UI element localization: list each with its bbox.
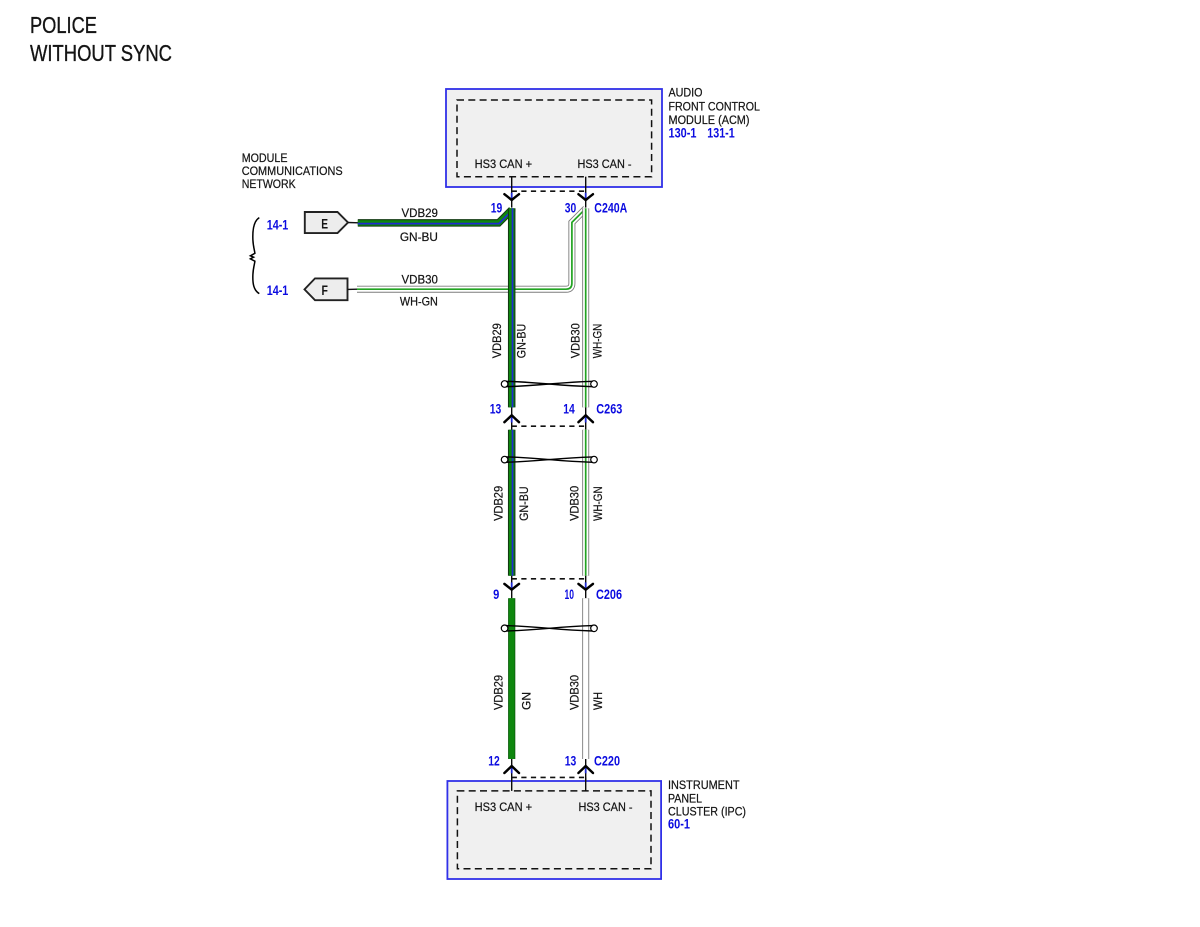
svg-text:MODULE: MODULE xyxy=(242,151,288,165)
label AUDIO FRONT CONTROL MODULE (ACM) xyxy=(669,86,760,128)
pin 9 arrow (C206) xyxy=(504,582,519,589)
wire label VDB30 (F branch) xyxy=(402,273,438,287)
pin 30 arrow (C240A) xyxy=(578,193,593,200)
pin 19 arrow (C240A) xyxy=(504,193,519,200)
connector C206 dashed link xyxy=(512,578,586,580)
wire label GN-BU vertical segment 2 xyxy=(517,486,531,521)
wire VDB29 GN-BU vertical segment C240A to C263 xyxy=(508,208,516,407)
svg-text:VDB29: VDB29 xyxy=(402,206,438,220)
in-line connector E xyxy=(305,212,348,233)
svg-text:14-1: 14-1 xyxy=(267,283,289,298)
svg-text:13: 13 xyxy=(490,402,502,417)
pin 12 arrow (C220) xyxy=(504,766,519,773)
pin 13 arrow (C263) xyxy=(504,415,519,422)
wire label GN-BU (E branch) xyxy=(400,230,438,244)
pin number 14 xyxy=(563,402,575,417)
connector label C206 xyxy=(596,587,622,602)
wire label WH-GN (F branch) xyxy=(400,295,438,309)
pin number 10 xyxy=(565,587,575,602)
svg-text:14: 14 xyxy=(563,402,575,417)
pin number 30 xyxy=(565,200,577,215)
wire VDB30 WH-GN vertical segment C240A to C263 xyxy=(582,208,589,407)
svg-text:14-1: 14-1 xyxy=(267,218,289,233)
connector label C220 xyxy=(594,753,620,768)
svg-text:HS3 CAN +: HS3 CAN + xyxy=(475,157,532,171)
IPC pin label HS3 CAN - xyxy=(579,800,633,814)
C220 stem pin 12 xyxy=(511,759,513,791)
IPC pin label HS3 CAN + xyxy=(475,800,532,814)
module box U1 AUDIO FRONT CONTROL MODULE (ACM) xyxy=(446,89,662,187)
wire link from F xyxy=(348,288,358,290)
ACM pin stem 30 xyxy=(585,177,587,208)
C263 stem pin 13 xyxy=(511,407,513,429)
svg-text:WITHOUT SYNC: WITHOUT SYNC xyxy=(30,40,172,66)
svg-text:C220: C220 xyxy=(594,753,620,768)
label INSTRUMENT PANEL CLUSTER (IPC) xyxy=(668,778,746,819)
svg-text:12: 12 xyxy=(488,753,500,768)
svg-text:E: E xyxy=(321,215,328,231)
wire link from E xyxy=(348,222,359,224)
ACM pin label HS3 CAN - xyxy=(578,157,632,171)
C206 stem pin 9 xyxy=(511,576,513,599)
page reference 130-1 131-1 xyxy=(669,125,736,140)
twisted pair symbol 2 xyxy=(501,456,597,463)
connector label C240A xyxy=(594,200,627,215)
wire VDB29 GN-BU from connector E to C240A pin 19 xyxy=(358,208,513,223)
in-line connector F xyxy=(305,278,348,300)
wire label GN vertical segment 3 xyxy=(519,692,533,710)
svg-text:VDB30: VDB30 xyxy=(402,273,438,287)
wire VDB30 WH-GN from connector F to C240A pin 30 xyxy=(357,209,586,290)
wire VDB29 GN vertical segment C206 to C220 xyxy=(508,598,515,759)
svg-text:F: F xyxy=(322,282,329,298)
twisted pair symbol 3 xyxy=(501,625,597,632)
connector C240A dashed link xyxy=(512,190,586,192)
IPC pin stem 13 (inside box) xyxy=(585,777,587,791)
svg-text:60-1: 60-1 xyxy=(668,817,690,832)
svg-text:COMMUNICATIONS: COMMUNICATIONS xyxy=(242,164,343,178)
svg-text:GN-BU: GN-BU xyxy=(515,324,529,359)
svg-text:GN-BU: GN-BU xyxy=(400,230,438,244)
svg-text:GN-BU: GN-BU xyxy=(517,486,531,521)
wire label WH-GN vertical segment 2 xyxy=(591,486,605,521)
page reference 14-1 (to connector F) xyxy=(267,283,289,298)
svg-text:WH: WH xyxy=(591,692,605,710)
label MODULE COMMUNICATIONS NETWORK xyxy=(242,151,343,191)
svg-text:13: 13 xyxy=(565,753,577,768)
svg-text:AUDIO: AUDIO xyxy=(669,86,703,100)
wire label GN-BU vertical segment 1 xyxy=(515,324,529,359)
pin number 9 xyxy=(493,587,499,602)
brace grouping E and F xyxy=(250,218,259,294)
page reference 60-1 xyxy=(668,817,690,832)
module box U2 INSTRUMENT PANEL CLUSTER (IPC) xyxy=(447,781,661,879)
svg-text:VDB29: VDB29 xyxy=(490,323,504,358)
pin 14 arrow (C263) xyxy=(578,415,593,422)
pin number 19 xyxy=(491,200,503,215)
wire VDB30 WH-GN vertical segment C263 to C206 xyxy=(582,430,589,576)
IPC pin stem 12 (inside box) xyxy=(511,777,513,791)
ACM pin label HS3 CAN + xyxy=(475,157,532,171)
wire label VDB29 vertical segment 1 xyxy=(490,323,504,358)
svg-text:VDB30: VDB30 xyxy=(568,486,582,521)
svg-text:HS3 CAN -: HS3 CAN - xyxy=(578,157,632,171)
pin 13 arrow (C220) xyxy=(578,766,593,773)
svg-text:WH-GN: WH-GN xyxy=(591,486,605,521)
pin number 12 xyxy=(488,753,500,768)
svg-text:C240A: C240A xyxy=(594,200,627,215)
svg-text:POLICE: POLICE xyxy=(30,12,97,38)
pin number 13 (C220) xyxy=(565,753,577,768)
diagram title POLICE WITHOUT SYNC xyxy=(30,12,172,66)
wire label VDB29 vertical segment 2 xyxy=(492,486,506,521)
wire label VDB29 (E branch) xyxy=(402,206,438,220)
svg-text:HS3 CAN +: HS3 CAN + xyxy=(475,800,532,814)
svg-text:PANEL: PANEL xyxy=(668,791,702,805)
svg-text:WH-GN: WH-GN xyxy=(400,295,438,309)
pin number 13 xyxy=(490,402,502,417)
wire VDB30 WH vertical segment C206 to C220 xyxy=(582,598,589,759)
C206 stem pin 10 xyxy=(585,576,587,599)
wire label WH vertical segment 3 xyxy=(591,692,605,710)
svg-text:INSTRUMENT: INSTRUMENT xyxy=(668,778,740,792)
svg-text:131-1: 131-1 xyxy=(707,125,735,140)
svg-text:FRONT CONTROL: FRONT CONTROL xyxy=(669,100,760,114)
connector label C263 xyxy=(596,402,622,417)
wire label VDB30 vertical segment 1 xyxy=(568,323,582,358)
svg-text:NETWORK: NETWORK xyxy=(242,177,297,191)
svg-text:HS3 CAN -: HS3 CAN - xyxy=(579,800,633,814)
svg-text:VDB29: VDB29 xyxy=(492,486,506,521)
wire label VDB29 vertical segment 3 xyxy=(492,675,506,710)
ACM pin stem 19 xyxy=(511,177,513,208)
svg-text:30: 30 xyxy=(565,200,577,215)
svg-text:VDB30: VDB30 xyxy=(568,323,582,358)
C263 stem pin 14 xyxy=(585,407,587,429)
svg-text:C206: C206 xyxy=(596,587,622,602)
svg-text:VDB30: VDB30 xyxy=(568,675,582,710)
wire label WH-GN vertical segment 1 xyxy=(591,324,605,359)
svg-text:130-1: 130-1 xyxy=(669,125,697,140)
wire label VDB30 vertical segment 2 xyxy=(568,486,582,521)
svg-text:VDB29: VDB29 xyxy=(492,675,506,710)
wire label VDB30 vertical segment 3 xyxy=(568,675,582,710)
connector C220 dashed link xyxy=(512,776,586,778)
svg-text:9: 9 xyxy=(493,587,499,602)
svg-text:C263: C263 xyxy=(596,402,622,417)
svg-text:WH-GN: WH-GN xyxy=(591,324,605,359)
svg-text:10: 10 xyxy=(565,587,575,602)
page reference 14-1 (to connector E) xyxy=(267,218,289,233)
pin 10 arrow (C206) xyxy=(578,582,593,589)
twisted pair symbol 1 xyxy=(501,381,597,388)
svg-text:19: 19 xyxy=(491,200,503,215)
connector C263 dashed link xyxy=(512,425,586,427)
C220 stem pin 13 xyxy=(585,759,587,791)
svg-text:GN: GN xyxy=(519,692,533,710)
wire VDB29 GN-BU vertical segment C263 to C206 xyxy=(508,430,516,576)
